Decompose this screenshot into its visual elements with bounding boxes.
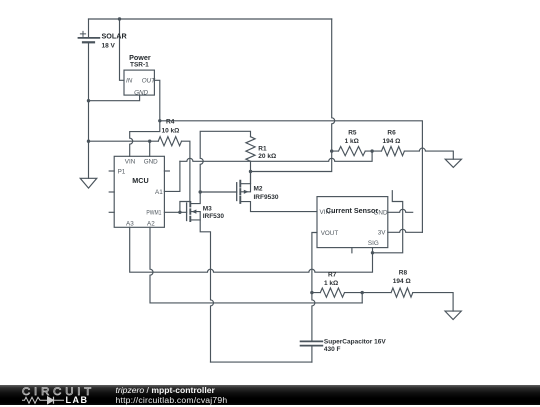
transistor M2 body arrow <box>244 190 249 194</box>
wire 5V to MCU VIN with hop over ground rail <box>130 121 160 157</box>
node junction SIG <box>371 251 374 254</box>
resistor R5 1 kOhm <box>332 147 372 156</box>
svg-text:18 V: 18 V <box>102 43 116 50</box>
svg-text:TSR-1: TSR-1 <box>130 61 149 68</box>
wire MCU A1 <box>164 161 180 191</box>
wire A1 net to R5-R6 junction with hops <box>180 151 372 161</box>
pin stub sensor bottom unconnected <box>351 248 353 253</box>
transistor M3 source lead <box>191 220 214 362</box>
node junction R7-R8 / A2 <box>361 291 364 294</box>
svg-text:SOLAR: SOLAR <box>102 31 128 40</box>
node junction ground rail / MCU GND <box>148 140 151 143</box>
svg-text:R6: R6 <box>387 129 396 136</box>
node junction solar+ / R5 left <box>330 149 333 152</box>
node junction TSR GND / battery negative <box>87 99 90 102</box>
wire SIG pin <box>372 248 374 253</box>
current sensor U3 box <box>317 197 388 248</box>
transistor M2 bottom lead to sensor VIN+ <box>241 202 317 212</box>
svg-text:3V: 3V <box>378 229 387 236</box>
svg-text:P1: P1 <box>118 169 126 176</box>
wire sensor GND pin with hop <box>388 209 413 212</box>
footer black bar <box>0 385 540 406</box>
resistor R4 10 kOhm <box>158 137 181 146</box>
svg-text:MCU: MCU <box>132 176 148 185</box>
node junction battery negative / ground rail <box>87 140 90 143</box>
svg-text:M3: M3 <box>203 206 212 213</box>
svg-text:A1: A1 <box>155 189 163 196</box>
svg-text:194 Ω: 194 Ω <box>383 138 401 145</box>
ground symbol lower right <box>445 311 461 319</box>
wire MCU A2 with hop over A3 <box>150 227 362 303</box>
transistor M3 channel bars <box>189 202 191 221</box>
svg-text:IRF530: IRF530 <box>203 213 225 220</box>
svg-text:OUT: OUT <box>142 78 156 85</box>
node junction M3 drain / M2 gate <box>199 190 202 193</box>
node junction R1 bottom net <box>249 170 252 173</box>
wire ground rail <box>89 140 159 142</box>
wire R6 right to ground with hop <box>404 148 453 159</box>
svg-text:1 kΩ: 1 kΩ <box>345 138 359 145</box>
svg-text:1 kΩ: 1 kΩ <box>324 280 338 287</box>
wire supercap bottom lead <box>311 347 313 363</box>
node junction PWM1 / R4 / M3 gate <box>178 211 181 214</box>
wire solar+ top rail <box>89 18 332 20</box>
wire sensor VOUT to supercap top <box>312 233 317 342</box>
svg-text:GND: GND <box>144 158 158 165</box>
svg-text:PWM1: PWM1 <box>146 209 161 216</box>
transistor M3 body arrow <box>192 210 197 214</box>
wire MCU GND drop <box>149 141 151 156</box>
pin stub MCU left middle <box>109 191 114 193</box>
svg-text:R5: R5 <box>348 129 357 136</box>
svg-text:R8: R8 <box>399 269 408 276</box>
battery V1 plus sign <box>80 31 85 36</box>
resistor R8 194 Ohm <box>362 288 413 297</box>
wire SIG net right and up (dangling) <box>373 191 403 253</box>
logo CIRCUIT word <box>22 386 95 398</box>
logo LAB word <box>66 395 89 405</box>
transistor M2 channel bars <box>239 181 241 203</box>
svg-text:GND: GND <box>134 89 148 96</box>
transistor M3 body lead <box>191 212 200 220</box>
ground symbol left <box>80 178 97 188</box>
credits line 2 <box>116 395 228 405</box>
svg-text:VIN+: VIN+ <box>320 209 334 216</box>
svg-text:R1: R1 <box>258 145 267 152</box>
wire bottom rail to supercap <box>211 361 312 363</box>
node junction top rail / TSR IN <box>118 17 121 20</box>
pin stub MCU P1 <box>109 170 114 172</box>
wire TSR-1 OUT <box>154 80 159 121</box>
transistor M2 top lead <box>241 172 250 184</box>
wire battery negative down <box>88 43 90 179</box>
wire 5V net to sensor 3V pin <box>160 121 423 233</box>
wire R1 net to R5 left <box>251 151 332 171</box>
MCU U1 box <box>114 156 164 227</box>
wire M3 drain up to R1 top <box>200 131 250 192</box>
svg-text:A2: A2 <box>147 220 155 227</box>
transistor M2 IRF9530 gate bar <box>236 183 238 201</box>
logo resistor-diode glyph <box>22 395 72 407</box>
pin stub MCU right upper <box>164 170 169 172</box>
wire TSR-1 GND to battery negative <box>89 95 140 101</box>
transistor M3 drain lead <box>191 192 200 204</box>
resistor R7 1 kOhm <box>312 288 362 297</box>
svg-text:IN: IN <box>126 78 133 85</box>
wire MCU A3 to SIG with hops <box>130 227 373 272</box>
svg-text:194 Ω: 194 Ω <box>393 278 411 285</box>
node junction VOUT / R7 / supercap <box>310 291 313 294</box>
node junction TSR OUT net <box>158 119 161 122</box>
svg-text:430 F: 430 F <box>324 346 341 353</box>
resistor R6 194 Ohm <box>372 147 404 156</box>
svg-text:SIG: SIG <box>368 240 379 247</box>
pin stub MCU left lower <box>109 211 114 213</box>
battery V1 SOLAR plates <box>79 37 100 39</box>
svg-text:IRF9530: IRF9530 <box>254 194 279 201</box>
wire M2 gate <box>200 191 237 193</box>
svg-text:VOUT: VOUT <box>321 230 339 237</box>
wire sensor 3V pin with hop <box>388 229 423 232</box>
capacitor C1 supercapacitor plates <box>301 341 323 345</box>
resistor R1 20 kOhm <box>246 137 255 162</box>
ground symbol upper right <box>445 159 461 167</box>
svg-text:A3: A3 <box>126 220 134 227</box>
svg-text:R4: R4 <box>166 118 175 125</box>
svg-text:R7: R7 <box>328 271 337 278</box>
svg-text:10 kΩ: 10 kΩ <box>162 128 180 135</box>
regulator U2 Power TSR-1 box <box>124 70 154 95</box>
svg-text:M2: M2 <box>254 186 263 193</box>
transistor M2 body lead <box>241 184 250 192</box>
wire R4 right to M3 gate net <box>180 141 190 212</box>
wire TSR-1 IN from top rail <box>120 19 125 80</box>
svg-text:SuperCapacitor 16V: SuperCapacitor 16V <box>324 338 386 345</box>
svg-text:VIN: VIN <box>125 158 136 165</box>
wire MCU PWM1 to M3 gate <box>164 211 186 213</box>
wire R1 bottom to M2 top lead <box>250 161 252 183</box>
credits line 1 <box>116 385 215 395</box>
svg-text:20 kΩ: 20 kΩ <box>258 153 276 160</box>
wire R8 right to ground <box>413 293 453 312</box>
svg-text:GND: GND <box>374 209 388 216</box>
svg-text:Current Sensor: Current Sensor <box>326 206 379 215</box>
node junction R5-R6 <box>370 149 373 152</box>
wire solar+ vertical with hop over 5V wire <box>332 19 335 151</box>
wire R7-R8 junction down to A2 wire <box>361 293 363 303</box>
transistor M3 IRF530 gate bar <box>186 203 188 221</box>
battery V1 SOLAR top lead <box>88 19 90 37</box>
